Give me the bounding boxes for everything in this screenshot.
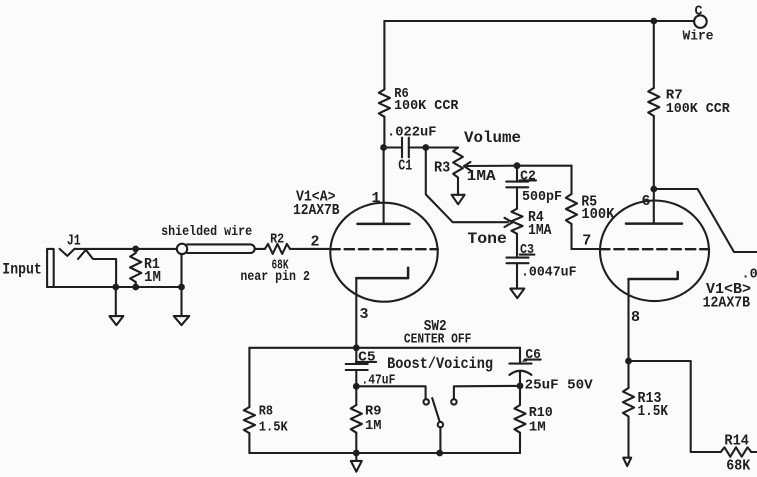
junction pin 6 xyxy=(650,186,657,193)
svg-text:100K CCR: 100K CCR xyxy=(666,102,731,117)
svg-text:25uF 50V: 25uF 50V xyxy=(525,379,594,394)
junction C1 right xyxy=(422,144,429,151)
svg-text:1MA: 1MA xyxy=(528,222,552,239)
rail SW2 top xyxy=(249,347,520,349)
capacitor C5 .47uF xyxy=(355,348,357,364)
svg-text:12AX7B: 12AX7B xyxy=(703,295,751,312)
resistor R8 1.5K xyxy=(248,348,250,407)
svg-text:100K: 100K xyxy=(581,206,614,223)
svg-text:R2: R2 xyxy=(270,233,284,248)
svg-text:12AX7B: 12AX7B xyxy=(293,202,340,219)
resistor R5 100K xyxy=(570,166,572,194)
ground rail at jack xyxy=(47,286,181,288)
junction sleeve/rail xyxy=(112,284,119,291)
resistor R9 1M xyxy=(355,386,357,405)
jack J1 tip contact xyxy=(60,249,75,256)
svg-text:Tone: Tone xyxy=(467,230,507,248)
svg-text:Wire: Wire xyxy=(683,29,714,44)
jack J1 body xyxy=(47,249,54,287)
svg-text:1: 1 xyxy=(372,190,381,207)
resistor R1 1M xyxy=(135,249,137,253)
svg-text:R10: R10 xyxy=(529,406,553,421)
resistor R7 xyxy=(653,21,655,88)
svg-text:near pin 2: near pin 2 xyxy=(240,270,310,285)
svg-text:Input: Input xyxy=(2,260,42,278)
wire pin 7 xyxy=(572,248,601,250)
wire volume wiper to R5 xyxy=(517,165,572,167)
junction R13 top xyxy=(625,358,632,365)
V1(B) grid (dashed) xyxy=(600,248,709,250)
shielded wire xyxy=(187,244,255,253)
capacitor C3 .0047uF xyxy=(516,234,518,258)
wire switch to C6 xyxy=(454,386,520,399)
resistor R10 1M xyxy=(519,386,521,405)
junction shield ground xyxy=(178,284,185,291)
wire to R14 xyxy=(629,361,721,452)
capacitor C1 .022uF xyxy=(384,146,402,148)
wire pin 8 cathode lead xyxy=(627,279,629,361)
wire C1 junction to tone wiper xyxy=(426,148,508,223)
triode V1(B) 12AX7B envelope xyxy=(600,201,709,302)
junction C2 top xyxy=(514,162,521,169)
svg-text:.0047uF: .0047uF xyxy=(521,265,577,280)
switch SW2 lever xyxy=(432,398,439,421)
junction R9 bottom xyxy=(353,450,360,457)
svg-text:C3: C3 xyxy=(520,243,534,258)
svg-text:68K: 68K xyxy=(726,458,750,475)
wire plate lead pin 1 xyxy=(383,148,385,224)
resistor R6 xyxy=(383,21,385,89)
junction R1 bottom xyxy=(132,284,139,291)
junction top rail / R7 xyxy=(650,18,657,25)
V1(A) grid (dashed) xyxy=(330,248,438,250)
potentiometer R3 1MA (Volume) xyxy=(453,148,463,178)
V1(A) cathode xyxy=(356,268,408,278)
svg-text:Volume: Volume xyxy=(464,129,521,147)
wire shield to R2 xyxy=(255,248,265,250)
wire B+ top rail xyxy=(384,20,694,22)
svg-text:500pF: 500pF xyxy=(522,190,562,205)
svg-text:R14: R14 xyxy=(724,432,749,449)
potentiometer R4 1MA (Tone) xyxy=(511,209,522,234)
junction pin3/rail xyxy=(353,344,360,351)
svg-text:R3: R3 xyxy=(434,160,450,177)
svg-text:1M: 1M xyxy=(365,419,382,434)
resistor R2 68K xyxy=(265,244,290,254)
node C (Wire terminal) xyxy=(694,15,707,28)
svg-text:Boost/Voicing: Boost/Voicing xyxy=(387,355,493,373)
svg-text:1MA: 1MA xyxy=(467,168,496,185)
svg-text:C5: C5 xyxy=(358,351,376,366)
svg-text:J1: J1 xyxy=(67,232,81,249)
ground below C3 xyxy=(510,289,524,299)
wire pin 3 cathode lead xyxy=(355,278,357,348)
V1(B) plate xyxy=(626,222,682,225)
wire pin6 to right edge xyxy=(654,189,757,252)
junction R1 top xyxy=(132,246,139,253)
jack J1 switch contact xyxy=(78,250,116,287)
ground below jack xyxy=(115,287,117,316)
resistor R14 68K xyxy=(721,447,752,456)
svg-text:C1: C1 xyxy=(398,158,412,175)
ground below R3 xyxy=(457,178,459,195)
svg-text:CENTER OFF: CENTER OFF xyxy=(404,332,472,347)
wire shield to ground xyxy=(180,254,182,316)
svg-text:6: 6 xyxy=(642,193,651,210)
svg-text:3: 3 xyxy=(360,306,369,323)
svg-text:8: 8 xyxy=(631,309,640,326)
junction C1 left xyxy=(380,144,387,151)
ground below shield xyxy=(174,316,189,325)
wire input signal xyxy=(75,248,177,250)
switch SW2 right contact xyxy=(451,399,456,404)
junction C6 bottom xyxy=(517,383,524,390)
wire switch common to rail xyxy=(439,428,441,453)
svg-text:C: C xyxy=(695,5,703,20)
svg-text:1M: 1M xyxy=(529,420,546,435)
svg-text:R8: R8 xyxy=(259,404,273,419)
ground below bottom rail xyxy=(355,453,357,461)
junction C5 bottom xyxy=(353,383,360,390)
rail SW2 bottom xyxy=(249,452,520,454)
svg-text:R9: R9 xyxy=(365,405,382,420)
wire C1 to R3 xyxy=(426,146,458,148)
capacitor C2 500pF xyxy=(516,166,518,182)
ground below R13 (small arrow) xyxy=(623,458,631,466)
svg-text:100K CCR: 100K CCR xyxy=(394,99,459,114)
svg-text:1.5K: 1.5K xyxy=(638,403,669,420)
wire C5 to switch xyxy=(356,386,425,399)
switch SW2 left contact xyxy=(424,399,429,404)
junction switch common bottom xyxy=(436,450,443,457)
svg-text:C2: C2 xyxy=(520,169,536,184)
svg-text:C6: C6 xyxy=(525,348,541,363)
svg-text:7: 7 xyxy=(582,232,591,249)
V1(A) plate xyxy=(358,223,410,226)
capacitor C6 25uF 50V xyxy=(519,348,521,364)
triode V1(A) 12AX7B envelope xyxy=(330,203,437,302)
wire R2 to grid pin 2 xyxy=(290,248,330,250)
resistor R13 1.5K xyxy=(627,361,629,388)
svg-text:shielded wire: shielded wire xyxy=(161,225,252,240)
svg-text:1M: 1M xyxy=(144,269,161,286)
svg-text:.022uF: .022uF xyxy=(387,125,437,140)
svg-text:1.5K: 1.5K xyxy=(259,421,289,436)
V1(B) cathode xyxy=(629,272,678,279)
switch SW2 common contact xyxy=(438,422,443,427)
